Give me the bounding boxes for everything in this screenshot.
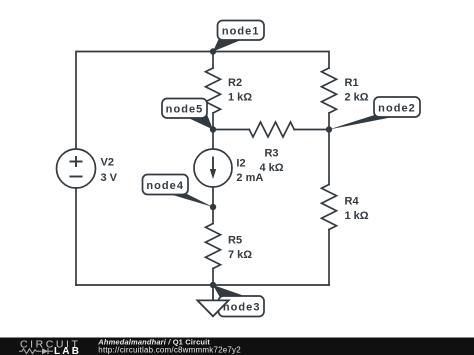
wire node5 to I2 bbox=[212, 130, 214, 150]
svg-text:3 V: 3 V bbox=[101, 172, 118, 184]
wire node1 stub bbox=[212, 52, 214, 69]
voltage source V2 plus sign bbox=[70, 156, 83, 177]
wire node5 to R3 bbox=[213, 129, 249, 131]
svg-text:http://circuitlab.com/c8wmmmk7: http://circuitlab.com/c8wmmmk72e7y2 bbox=[98, 346, 241, 355]
svg-text:2 kΩ: 2 kΩ bbox=[345, 92, 369, 104]
junction node4 bbox=[210, 204, 216, 210]
resistor R3 bbox=[249, 122, 294, 137]
wire node2 to R4 bbox=[328, 130, 330, 185]
wire R1 to node2 bbox=[328, 113, 330, 130]
current source I2 arrow bbox=[210, 157, 216, 180]
svg-text:node5: node5 bbox=[166, 104, 204, 116]
svg-text:node2: node2 bbox=[378, 103, 416, 115]
junction node1 bbox=[210, 48, 216, 54]
junction node2 bbox=[326, 126, 332, 132]
wire R4 to bottom rail bbox=[328, 230, 330, 286]
wire bottom rail bbox=[76, 284, 329, 286]
ground bbox=[197, 285, 228, 316]
svg-text:R2: R2 bbox=[228, 77, 242, 89]
resistor R1 bbox=[322, 68, 337, 113]
svg-text:R3: R3 bbox=[264, 148, 278, 160]
svg-text:node3: node3 bbox=[223, 302, 261, 314]
wire R5 to bottom rail bbox=[212, 269, 214, 286]
svg-text:7 kΩ: 7 kΩ bbox=[228, 249, 252, 261]
wire left rail lower bbox=[75, 188, 77, 285]
node node3 callout bbox=[213, 285, 264, 317]
svg-text:node4: node4 bbox=[146, 180, 184, 192]
junction node5 bbox=[210, 126, 216, 132]
voltage source V2 minus sign bbox=[70, 176, 83, 178]
svg-text:R4: R4 bbox=[345, 196, 360, 208]
svg-text:1 kΩ: 1 kΩ bbox=[228, 92, 252, 104]
svg-text:R5: R5 bbox=[228, 235, 242, 247]
wire node4 to R5 bbox=[212, 207, 214, 224]
node node5 callout bbox=[162, 99, 213, 130]
svg-text:4 kΩ: 4 kΩ bbox=[259, 162, 283, 174]
voltage source V2 bbox=[57, 149, 96, 188]
junction node3 bbox=[210, 282, 216, 288]
svg-text:R1: R1 bbox=[345, 77, 359, 89]
current source I2 bbox=[194, 149, 232, 187]
svg-text:1 kΩ: 1 kΩ bbox=[345, 210, 369, 222]
wire I2 to node4 bbox=[212, 187, 214, 207]
wire R2 to node5 bbox=[212, 113, 214, 130]
svg-text:I2: I2 bbox=[236, 158, 245, 170]
svg-text:V2: V2 bbox=[101, 157, 114, 169]
svg-text:LAB: LAB bbox=[54, 346, 81, 355]
wire R3 to node2 bbox=[294, 129, 329, 131]
node node1 callout bbox=[213, 21, 264, 52]
node node4 callout bbox=[143, 175, 214, 208]
footer bar bbox=[0, 338, 474, 355]
resistor R4 bbox=[322, 185, 337, 230]
resistor R2 bbox=[206, 68, 221, 113]
svg-text:node1: node1 bbox=[222, 26, 260, 38]
resistor R5 bbox=[206, 224, 221, 269]
node node2 callout bbox=[329, 97, 420, 130]
footer logo schematic doodle bbox=[19, 348, 53, 354]
wire top rail bbox=[76, 52, 329, 149]
